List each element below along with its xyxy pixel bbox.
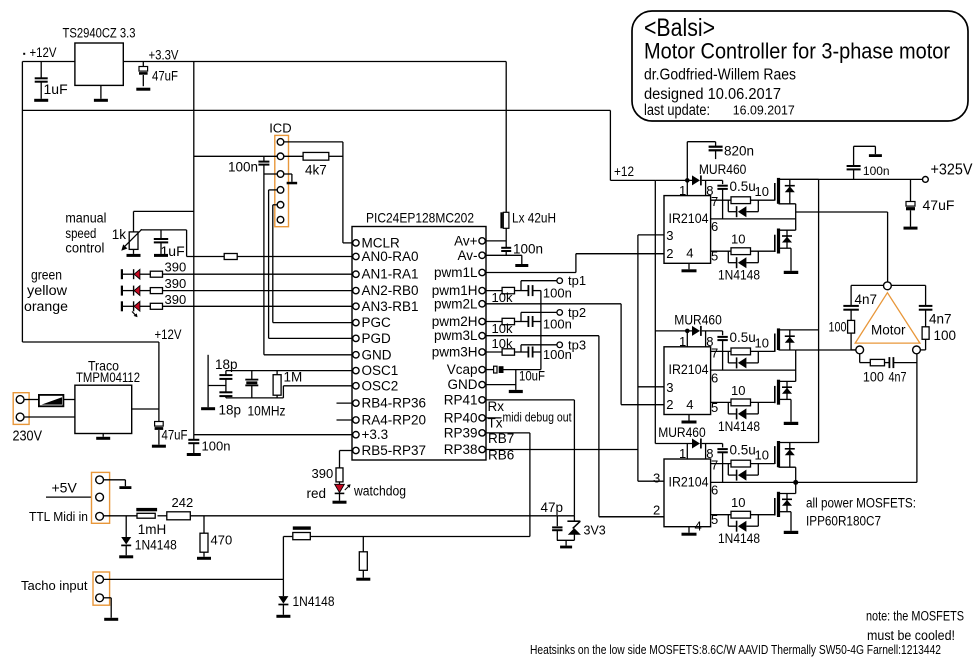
svg-text:390: 390 xyxy=(165,276,187,291)
svg-text:+12V: +12V xyxy=(155,326,183,342)
svg-text:AN3-RB1: AN3-RB1 xyxy=(362,299,419,314)
svg-text:3: 3 xyxy=(666,228,673,243)
svg-text:PGD: PGD xyxy=(362,331,392,346)
svg-text:manual: manual xyxy=(65,211,106,226)
svg-text:1N4148: 1N4148 xyxy=(718,268,760,283)
svg-text:820n: 820n xyxy=(724,144,754,159)
svg-text:1N4148: 1N4148 xyxy=(135,538,177,553)
svg-text:control: control xyxy=(65,241,104,256)
svg-text:speed: speed xyxy=(65,226,96,241)
svg-text:47p: 47p xyxy=(541,500,564,515)
svg-text:Tx: Tx xyxy=(488,416,503,431)
svg-text:Av+: Av+ xyxy=(454,233,478,248)
svg-text:47uF: 47uF xyxy=(152,68,178,84)
svg-text:0.5u: 0.5u xyxy=(730,179,756,194)
svg-text:MUR460: MUR460 xyxy=(674,312,722,327)
svg-text:6: 6 xyxy=(711,370,718,385)
svg-text:pwm2L: pwm2L xyxy=(434,296,478,311)
svg-text:RP41: RP41 xyxy=(444,392,478,407)
svg-text:+3.3V: +3.3V xyxy=(149,47,180,63)
svg-text:470: 470 xyxy=(211,533,233,548)
svg-text:4n7: 4n7 xyxy=(889,370,907,385)
svg-text:2: 2 xyxy=(653,502,660,517)
svg-text:1: 1 xyxy=(679,334,686,349)
svg-text:RB6: RB6 xyxy=(488,448,514,463)
svg-text:+325V: +325V xyxy=(931,162,973,179)
svg-text:pwm1L: pwm1L xyxy=(434,265,478,280)
svg-text:1k: 1k xyxy=(112,227,127,242)
svg-text:4: 4 xyxy=(686,246,693,261)
svg-text:Vcap: Vcap xyxy=(447,362,478,377)
svg-text:10: 10 xyxy=(731,495,745,510)
svg-text:dr.Godfried-Willem Raes: dr.Godfried-Willem Raes xyxy=(644,67,796,84)
svg-text:note: the MOSFETS: note: the MOSFETS xyxy=(866,609,964,624)
svg-text:18p: 18p xyxy=(219,403,242,418)
svg-text:16.09.2017: 16.09.2017 xyxy=(733,103,795,118)
svg-text:RP40: RP40 xyxy=(444,410,478,425)
svg-text:orange: orange xyxy=(24,299,68,314)
svg-text:10MHz: 10MHz xyxy=(248,404,286,419)
svg-text:10: 10 xyxy=(755,335,769,350)
svg-text:230V: 230V xyxy=(13,429,43,445)
svg-text:1N4148: 1N4148 xyxy=(718,419,760,434)
svg-text:100n: 100n xyxy=(863,164,890,178)
svg-text:Motor Controller for 3-phase m: Motor Controller for 3-phase motor xyxy=(644,39,950,64)
svg-text:18p: 18p xyxy=(215,357,238,372)
svg-text:GND: GND xyxy=(448,377,478,392)
svg-text:ICD: ICD xyxy=(269,121,291,136)
svg-text:AN0-RA0: AN0-RA0 xyxy=(362,249,419,264)
svg-text:IR2104: IR2104 xyxy=(669,474,709,489)
svg-text:10uF: 10uF xyxy=(519,368,545,384)
svg-text:IR2104: IR2104 xyxy=(669,211,709,226)
svg-text:1N4148: 1N4148 xyxy=(293,594,335,609)
svg-text:all power MOSFETS:: all power MOSFETS: xyxy=(806,496,916,511)
svg-text:6: 6 xyxy=(711,219,718,234)
svg-text:4n7: 4n7 xyxy=(929,312,952,327)
svg-text:242: 242 xyxy=(172,495,194,510)
svg-text:+5V: +5V xyxy=(52,480,78,496)
svg-text:PIC24EP128MC202: PIC24EP128MC202 xyxy=(366,210,474,226)
svg-text:100n: 100n xyxy=(543,347,572,362)
svg-text:1uF: 1uF xyxy=(44,81,68,97)
svg-text:10k: 10k xyxy=(492,290,513,305)
svg-text:green: green xyxy=(31,268,62,283)
svg-text:100: 100 xyxy=(863,370,884,385)
svg-text:Heatsinks on the low side MOSF: Heatsinks on the low side MOSFETS:8.6C/W… xyxy=(530,643,941,657)
svg-text:0.5u: 0.5u xyxy=(730,330,756,345)
svg-text:TMPM04112: TMPM04112 xyxy=(76,369,140,385)
svg-text:AN2-RB0: AN2-RB0 xyxy=(362,283,419,298)
svg-text:AN1-RA1: AN1-RA1 xyxy=(362,267,419,282)
svg-text:pwm3L: pwm3L xyxy=(434,328,478,343)
svg-text:390: 390 xyxy=(165,260,187,275)
svg-text:MUR460: MUR460 xyxy=(658,425,706,440)
svg-text:Tacho input: Tacho input xyxy=(21,578,88,593)
svg-text:1: 1 xyxy=(679,183,686,198)
svg-text:Av-: Av- xyxy=(457,248,477,263)
svg-text:4k7: 4k7 xyxy=(305,163,327,178)
svg-text:3: 3 xyxy=(653,471,660,486)
svg-text:1N4148: 1N4148 xyxy=(718,531,760,546)
svg-text:TS2940CZ 3.3: TS2940CZ 3.3 xyxy=(63,26,136,41)
svg-text:Lx 42uH: Lx 42uH xyxy=(512,211,556,226)
svg-text:7: 7 xyxy=(711,458,718,473)
svg-text:100n: 100n xyxy=(228,160,258,175)
svg-text:10: 10 xyxy=(755,448,769,463)
svg-text:OSC2: OSC2 xyxy=(362,378,399,393)
svg-text:midi debug out: midi debug out xyxy=(503,411,572,425)
svg-text:1M: 1M xyxy=(284,370,303,385)
svg-text:RP38: RP38 xyxy=(444,442,478,457)
svg-text:7: 7 xyxy=(711,345,718,360)
svg-text:3V3: 3V3 xyxy=(584,524,606,538)
svg-text:RB7: RB7 xyxy=(488,431,514,446)
svg-text:390: 390 xyxy=(312,466,334,481)
svg-text:IR2104: IR2104 xyxy=(669,362,709,377)
svg-text:RP39: RP39 xyxy=(444,425,478,440)
svg-text:RB5-RP37: RB5-RP37 xyxy=(362,443,427,458)
svg-text:OSC1: OSC1 xyxy=(362,363,399,378)
svg-text:+12V: +12V xyxy=(30,44,58,60)
svg-text:6: 6 xyxy=(711,483,718,498)
svg-text:1mH: 1mH xyxy=(138,522,167,537)
svg-text:0.5u: 0.5u xyxy=(730,442,756,457)
svg-text:100n: 100n xyxy=(543,286,572,301)
svg-text:+12: +12 xyxy=(614,164,634,179)
svg-text:1uF: 1uF xyxy=(161,243,185,259)
svg-text:designed 10.06.2017: designed 10.06.2017 xyxy=(644,86,781,103)
svg-text:2: 2 xyxy=(666,397,673,412)
svg-text:10: 10 xyxy=(731,232,745,247)
svg-text:3: 3 xyxy=(666,380,673,395)
svg-text:+3.3: +3.3 xyxy=(362,427,389,442)
svg-text:must be cooled!: must be cooled! xyxy=(867,628,955,643)
svg-text:last update:: last update: xyxy=(644,102,710,119)
svg-text:47uF: 47uF xyxy=(162,427,188,443)
svg-text:Motor: Motor xyxy=(871,323,906,338)
svg-text:red: red xyxy=(307,486,327,501)
svg-text:100n: 100n xyxy=(202,439,231,454)
svg-text:10k: 10k xyxy=(492,336,513,351)
svg-text:MUR460: MUR460 xyxy=(699,162,747,177)
svg-text:1: 1 xyxy=(679,446,686,461)
svg-text:390: 390 xyxy=(165,292,187,307)
svg-text:4: 4 xyxy=(686,397,693,412)
svg-text:47uF: 47uF xyxy=(923,197,955,213)
svg-text:pwm2H: pwm2H xyxy=(432,314,478,329)
svg-text:7: 7 xyxy=(711,194,718,209)
svg-text:100n: 100n xyxy=(513,242,543,257)
svg-text:4n7: 4n7 xyxy=(855,292,878,307)
svg-text:IPP60R180C7: IPP60R180C7 xyxy=(806,514,881,529)
svg-text:GND: GND xyxy=(362,347,392,362)
svg-text:yellow: yellow xyxy=(27,283,67,298)
svg-text:RA4-RP20: RA4-RP20 xyxy=(362,413,427,428)
svg-text:10k: 10k xyxy=(492,321,513,336)
svg-text:100n: 100n xyxy=(543,317,572,332)
svg-text:4: 4 xyxy=(695,519,702,534)
svg-text:100: 100 xyxy=(829,320,847,335)
svg-text:2: 2 xyxy=(666,246,673,261)
svg-text:10: 10 xyxy=(755,184,769,199)
svg-text:10: 10 xyxy=(731,383,745,398)
svg-text:100: 100 xyxy=(934,328,957,343)
svg-text:RB4-RP36: RB4-RP36 xyxy=(362,396,427,411)
svg-text:PGC: PGC xyxy=(362,315,392,330)
svg-text:pwm3H: pwm3H xyxy=(432,345,478,360)
svg-text:TTL Midi in: TTL Midi in xyxy=(29,510,88,524)
svg-text:watchdog: watchdog xyxy=(353,484,406,499)
